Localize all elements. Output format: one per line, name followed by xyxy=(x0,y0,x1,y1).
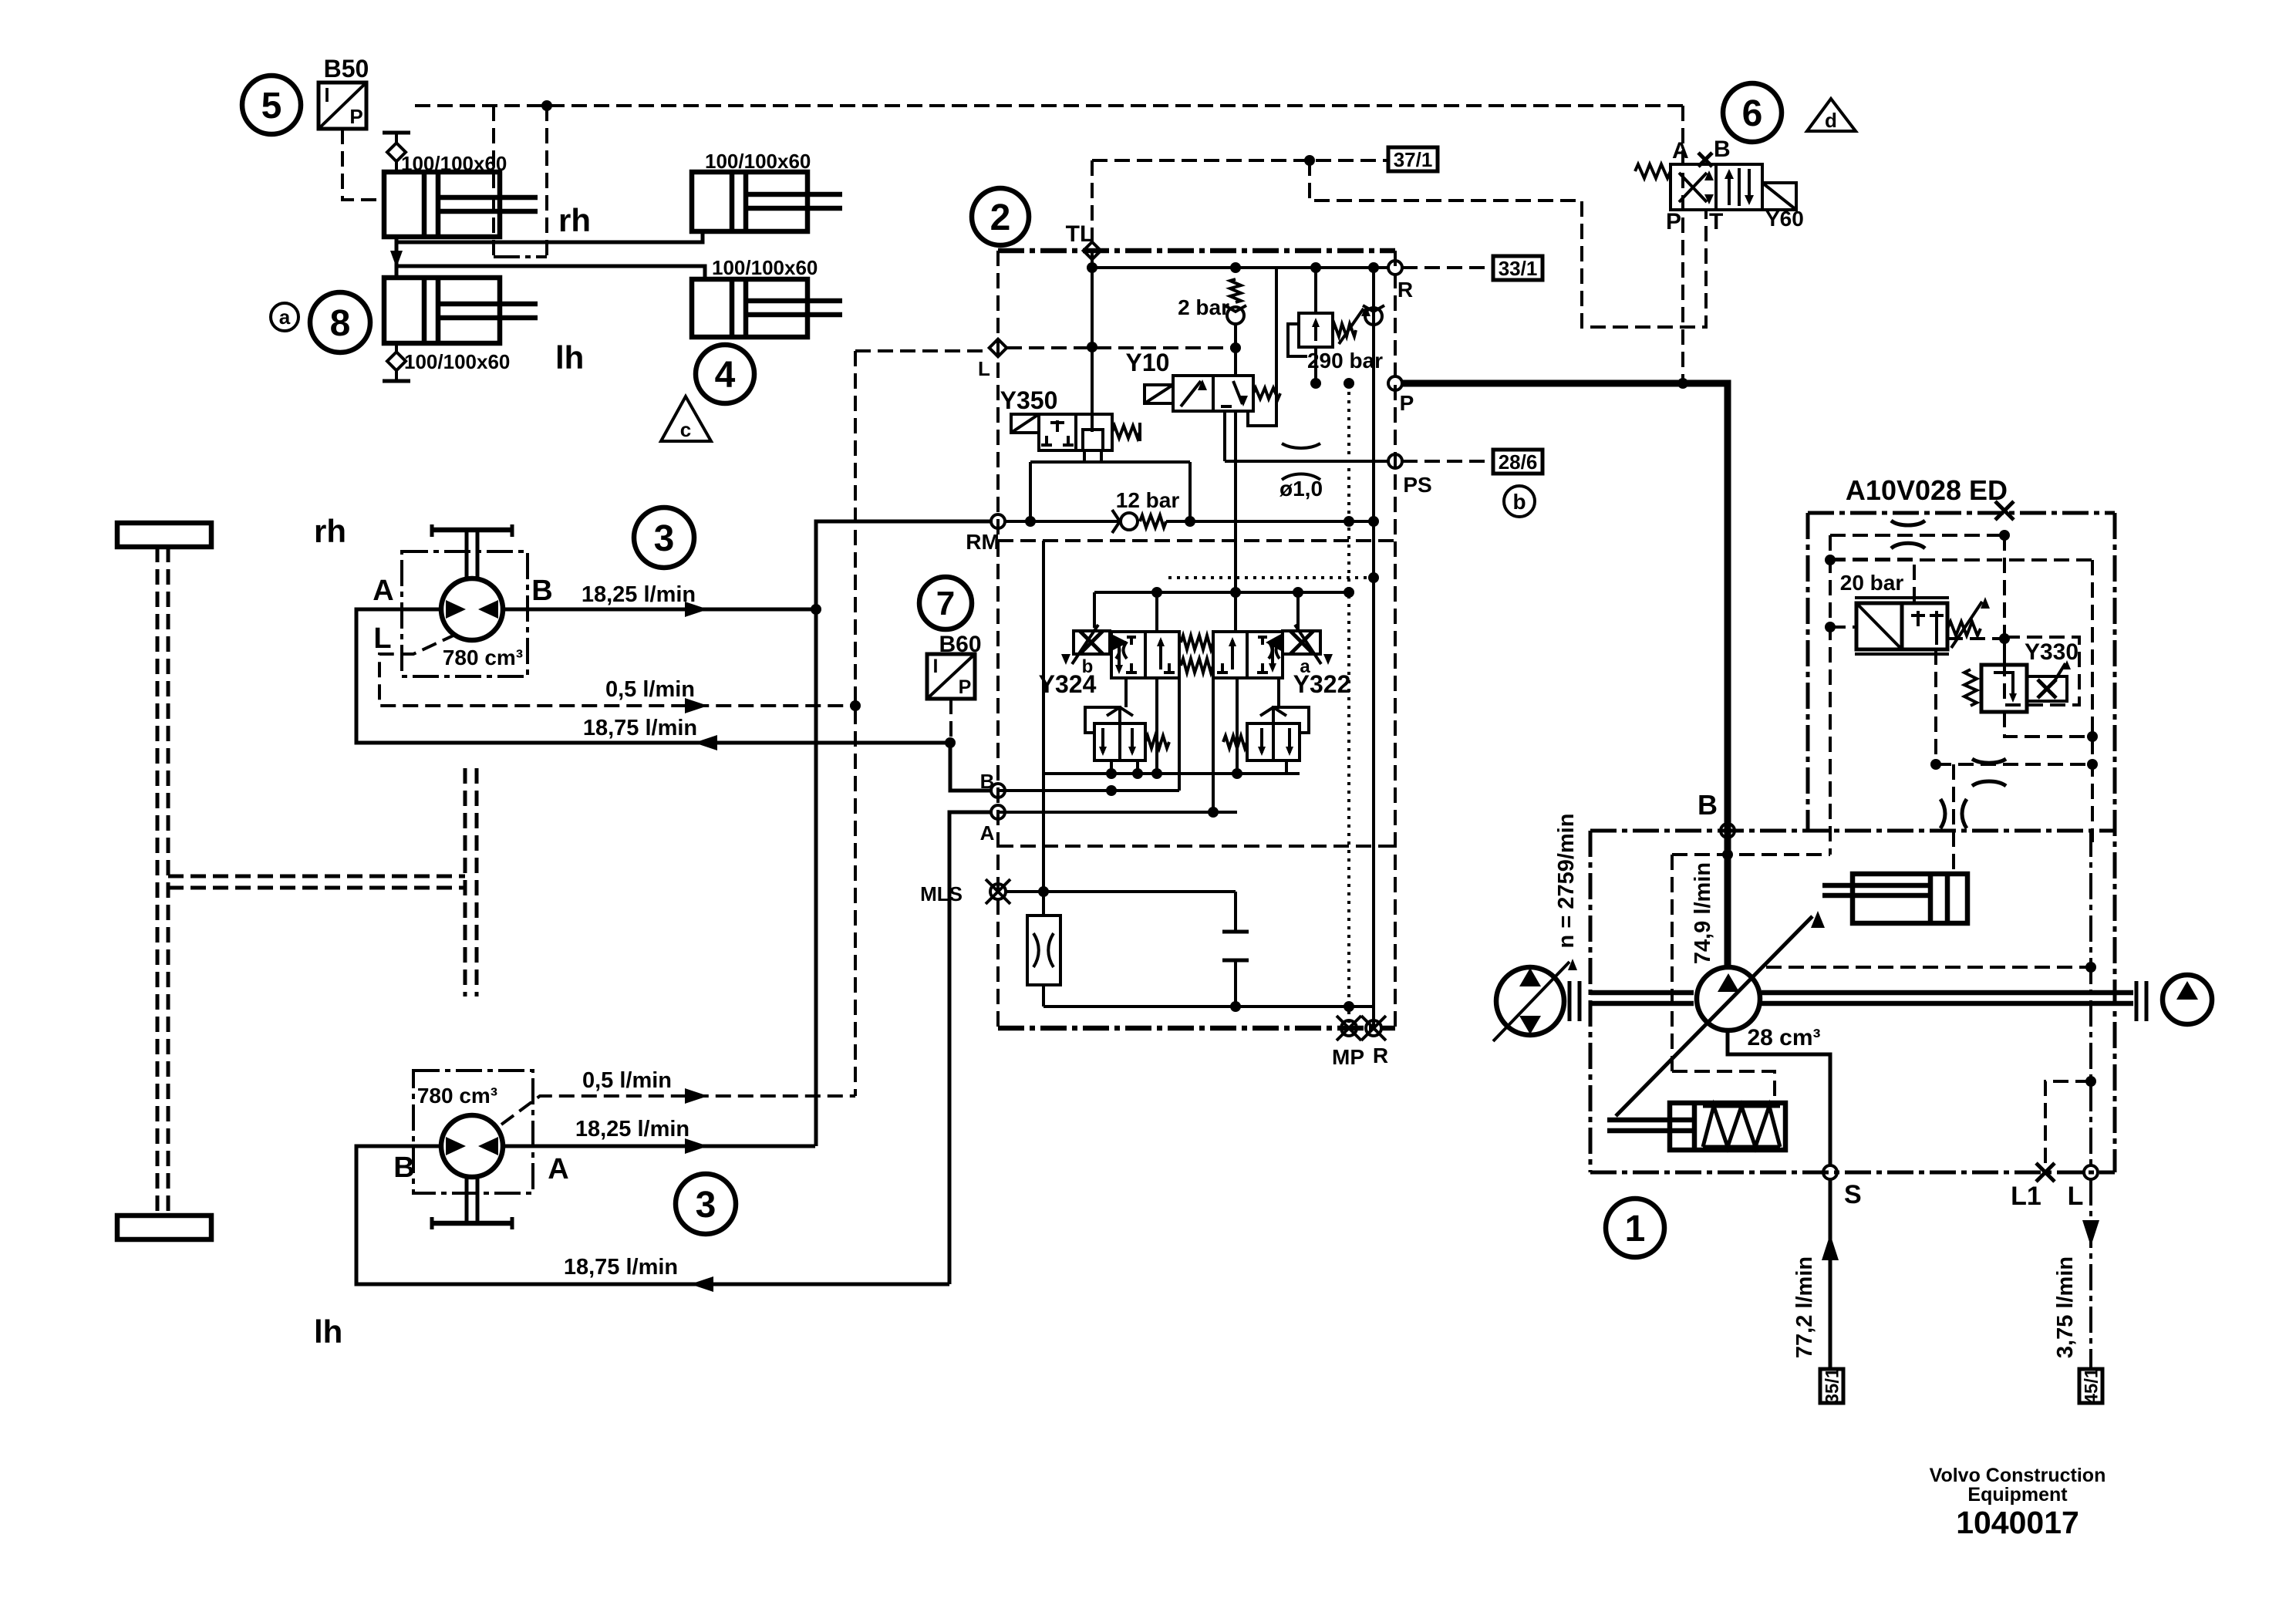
port PS xyxy=(1388,454,1402,468)
svg-text:B: B xyxy=(393,1152,414,1184)
svg-text:0,5 l/min: 0,5 l/min xyxy=(605,677,695,702)
svg-text:3: 3 xyxy=(696,1185,716,1226)
wire case drain dashed xyxy=(1766,966,2091,969)
svg-text:B: B xyxy=(1714,137,1731,162)
svg-text:3: 3 xyxy=(654,518,675,559)
svg-text:7: 7 xyxy=(936,585,955,622)
wire L1 bypass xyxy=(2045,1081,2091,1163)
valve block 2 border xyxy=(998,248,1395,254)
svg-text:T: T xyxy=(1709,209,1723,234)
ref 28/6 xyxy=(1493,450,1542,474)
wire pilot top dashed xyxy=(415,104,1683,107)
wire Y330 outlet xyxy=(2004,712,2092,737)
port P xyxy=(1388,376,1402,390)
wire 37/1 dashed xyxy=(1092,159,1388,162)
wire B dashed inner xyxy=(1672,853,1830,856)
wire lh L drain 0,5 xyxy=(501,1096,855,1125)
svg-text:Volvo Construction: Volvo Construction xyxy=(1930,1465,2106,1486)
port L1 xyxy=(2036,1163,2055,1182)
servo cylinder xyxy=(1853,874,1967,923)
wire L drain line xyxy=(2089,831,2092,1165)
svg-text:S: S xyxy=(1844,1180,1862,1209)
svg-text:2: 2 xyxy=(990,197,1011,238)
wire pump outlet to S xyxy=(1728,1032,1830,1165)
shaft lines xyxy=(1590,990,1694,996)
wire compensator bottom xyxy=(1043,772,1300,775)
svg-text:Y10: Y10 xyxy=(1126,349,1170,376)
svg-text:3,75 l/min: 3,75 l/min xyxy=(2053,1256,2078,1358)
wire Y350 outlet bracket xyxy=(1030,450,1190,521)
pressure compensator left xyxy=(1094,723,1120,760)
svg-text:rh: rh xyxy=(314,513,346,549)
orifice 1,0 xyxy=(1282,443,1320,448)
check valve P to R xyxy=(1365,308,1382,325)
wire P main to pump xyxy=(1402,383,1728,966)
wires compensator linkage xyxy=(1124,678,1128,707)
balloon 3 rh xyxy=(634,508,694,568)
svg-text:33/1: 33/1 xyxy=(1499,257,1538,280)
wire lh A out 18,25 xyxy=(503,1145,815,1148)
svg-text:L: L xyxy=(373,622,391,655)
wire pilot drop left xyxy=(492,106,495,257)
svg-text:74,9 l/min: 74,9 l/min xyxy=(1691,862,1715,964)
svg-text:B50: B50 xyxy=(324,55,369,83)
svg-text:28 cm³: 28 cm³ xyxy=(1747,1025,1820,1050)
wire MLS line xyxy=(1006,890,1236,893)
balloon 5 xyxy=(242,76,301,134)
svg-text:I: I xyxy=(324,83,329,106)
svg-text:0,5 l/min: 0,5 l/min xyxy=(582,1068,672,1093)
svg-text:45/1: 45/1 xyxy=(2081,1368,2102,1404)
springs between valves xyxy=(1181,636,1213,649)
svg-text:5: 5 xyxy=(261,86,282,126)
port B xyxy=(991,784,1005,798)
wire P pilot riser xyxy=(1681,106,1684,383)
balloon 8 xyxy=(310,292,370,352)
wire 28/6 xyxy=(1402,460,1493,463)
svg-text:PS: PS xyxy=(1403,473,1431,497)
port B pump xyxy=(1721,824,1735,838)
svg-text:100/100x60: 100/100x60 xyxy=(401,152,507,175)
svg-text:ø1,0: ø1,0 xyxy=(1279,477,1323,501)
wire B port line xyxy=(950,743,991,791)
svg-text:B: B xyxy=(1698,789,1718,821)
valve Y322 xyxy=(1213,632,1247,678)
main pump xyxy=(1697,967,1760,1030)
wire TL internal drop xyxy=(1091,251,1094,432)
svg-text:18,75 l/min: 18,75 l/min xyxy=(583,716,697,740)
ref 33/1 xyxy=(1493,256,1542,280)
svg-text:A: A xyxy=(980,821,995,845)
boost pump right xyxy=(2163,975,2212,1024)
swashplate arrow xyxy=(1616,916,1812,1116)
cylinder rh right 100/100x60 xyxy=(692,172,842,231)
port MP xyxy=(1341,1020,1357,1036)
breather bottom xyxy=(395,343,398,352)
orifice restrictor xyxy=(1027,916,1060,985)
aux pump left xyxy=(1496,967,1564,1035)
wire B60 drop xyxy=(949,699,952,740)
balloon a xyxy=(271,303,298,331)
block2 inner dashed line 1 xyxy=(998,539,1395,542)
svg-text:d: d xyxy=(1825,109,1837,132)
ref 37/1 xyxy=(1388,147,1438,171)
svg-text:P: P xyxy=(959,676,972,698)
block2 inner dashed line 2 xyxy=(998,845,1395,848)
svg-text:18,75 l/min: 18,75 l/min xyxy=(564,1255,678,1280)
accumulator xyxy=(1234,892,1237,932)
svg-text:1040017: 1040017 xyxy=(1956,1505,2079,1540)
motor lh 780cm3 xyxy=(413,1071,533,1193)
wire inner dashed box xyxy=(1830,558,2092,561)
spring Y60 xyxy=(1635,164,1671,178)
svg-text:100/100x60: 100/100x60 xyxy=(404,350,510,373)
svg-text:77,2 l/min: 77,2 l/min xyxy=(1792,1256,1817,1358)
svg-text:P: P xyxy=(1400,391,1414,415)
svg-text:B: B xyxy=(980,770,995,793)
svg-text:37/1: 37/1 xyxy=(1394,148,1433,171)
svg-text:L1: L1 xyxy=(2011,1182,2041,1211)
cylinder lh right 100/100x60 xyxy=(692,279,842,337)
wire L outlet xyxy=(2089,1179,2092,1369)
breather top xyxy=(395,162,398,172)
wire R riser xyxy=(1372,268,1375,1028)
svg-text:100/100x60: 100/100x60 xyxy=(712,256,818,279)
wire between cylinders xyxy=(395,237,399,278)
wire A internal xyxy=(998,811,1237,814)
wire rh pipe xyxy=(396,231,703,242)
motor rh 780cm3 xyxy=(402,551,528,676)
svg-text:RM: RM xyxy=(966,530,1000,554)
cylinder rh left 100/100x60 xyxy=(384,172,538,237)
ref 35/1 xyxy=(1820,1369,1843,1403)
regulator spring cylinder xyxy=(1670,1103,1785,1150)
svg-text:8: 8 xyxy=(330,303,351,344)
port MLS xyxy=(990,884,1006,899)
wire TL pilot up xyxy=(1091,160,1094,242)
wire RM collector xyxy=(816,521,991,1146)
wire feedback dashed top xyxy=(1830,534,2004,537)
check valve 2 bar xyxy=(1230,279,1241,302)
svg-text:I: I xyxy=(933,656,939,677)
wire Y10 to PS line xyxy=(1223,411,1226,461)
wire lh pipe xyxy=(396,266,705,279)
port R side xyxy=(1388,261,1402,275)
wire Y10 right link xyxy=(1248,268,1276,426)
svg-text:a: a xyxy=(279,305,291,329)
valve Y324 xyxy=(1074,631,1110,654)
svg-text:Y322: Y322 xyxy=(1293,670,1351,698)
svg-text:rh: rh xyxy=(558,202,591,238)
balloon 2 xyxy=(972,188,1029,245)
port S xyxy=(1823,1165,1837,1179)
spring 20bar solenoid xyxy=(1947,622,1981,636)
svg-text:780 cm³: 780 cm³ xyxy=(417,1084,497,1108)
svg-text:18,25 l/min: 18,25 l/min xyxy=(575,1117,689,1141)
pressure compensator right xyxy=(1247,723,1273,760)
wire R supply line xyxy=(1092,266,1388,269)
balloon 6 xyxy=(1723,83,1782,142)
port A xyxy=(991,805,1005,819)
wire L pilot dashed xyxy=(1006,346,1236,349)
svg-text:lh: lh xyxy=(314,1313,342,1350)
svg-text:20 bar: 20 bar xyxy=(1840,571,1904,595)
relief valve 290 bar xyxy=(1299,313,1333,347)
svg-text:28/6: 28/6 xyxy=(1499,450,1538,474)
wire MP riser xyxy=(1347,383,1350,1028)
svg-text:18,25 l/min: 18,25 l/min xyxy=(582,582,696,607)
svg-text:2 bar: 2 bar xyxy=(1178,295,1229,319)
cylinder lh left 100/100x60 xyxy=(384,278,538,343)
svg-text:290 bar: 290 bar xyxy=(1307,349,1383,373)
pump block 1 border xyxy=(1590,829,2115,833)
port L xyxy=(990,339,1007,357)
wire rh L drain 0,5 xyxy=(379,634,855,706)
svg-text:lh: lh xyxy=(555,339,584,376)
wire 20bar pilot taps xyxy=(1830,559,1914,603)
svg-text:A: A xyxy=(1672,138,1689,164)
wire Y60 T-line xyxy=(1310,160,1706,327)
svg-text:L: L xyxy=(978,357,990,380)
wire S suction xyxy=(1829,1179,1832,1369)
port R bottom xyxy=(1366,1020,1381,1036)
svg-text:A: A xyxy=(548,1153,568,1185)
port RM xyxy=(991,514,1005,528)
svg-text:4: 4 xyxy=(715,355,736,396)
ref 45/1 xyxy=(2079,1369,2102,1403)
svg-text:Y324: Y324 xyxy=(1039,670,1097,698)
axle cross horizontal xyxy=(168,875,465,878)
balloon 7 xyxy=(919,577,972,629)
wire tank bottom xyxy=(1043,1005,1374,1008)
svg-text:A10V028 ED: A10V028 ED xyxy=(1846,474,2008,506)
solenoid Y60 xyxy=(1762,183,1796,210)
balloon b xyxy=(1504,486,1535,517)
wire A port line xyxy=(949,812,991,1284)
svg-text:35/1: 35/1 xyxy=(1822,1368,1843,1404)
wire lh B return 18,75 xyxy=(356,1146,949,1284)
wire rh A return xyxy=(356,609,950,743)
shaft coupling right xyxy=(2135,981,2139,1021)
track bottom bar xyxy=(117,1216,211,1239)
valve Y60 4/2 xyxy=(1671,164,1716,210)
svg-text:R: R xyxy=(1397,278,1413,302)
svg-text:6: 6 xyxy=(1742,93,1763,134)
wire B50 to cylinder xyxy=(342,129,383,200)
track top bar xyxy=(117,523,211,547)
svg-text:MP: MP xyxy=(1332,1045,1364,1069)
svg-text:Y60: Y60 xyxy=(1765,207,1804,231)
balloon 4 xyxy=(696,345,754,403)
svg-text:P: P xyxy=(349,105,362,128)
orifice servo xyxy=(1952,764,1955,874)
svg-text:780 cm³: 780 cm³ xyxy=(443,646,523,669)
svg-text:1: 1 xyxy=(1625,1209,1646,1249)
svg-text:L: L xyxy=(2068,1182,2084,1211)
wire L pilot out xyxy=(855,349,990,352)
svg-text:Y350: Y350 xyxy=(1000,386,1058,414)
svg-text:n = 2759/min: n = 2759/min xyxy=(1554,814,1579,949)
wire rh B out 18,25 xyxy=(503,608,816,612)
wire 33/1 xyxy=(1402,266,1493,269)
svg-text:b: b xyxy=(1512,490,1526,514)
balloon 3 lh xyxy=(676,1174,736,1234)
wire drain collector dashed xyxy=(854,351,857,1096)
port L xyxy=(2084,1165,2098,1179)
svg-text:Y330: Y330 xyxy=(2025,639,2079,665)
svg-text:R: R xyxy=(1373,1044,1388,1067)
wire regulator pilot xyxy=(1672,1071,1775,1103)
triangle d xyxy=(1807,99,1856,131)
svg-text:P: P xyxy=(1666,209,1681,234)
wire servo supply xyxy=(1934,649,1937,764)
svg-text:Equipment: Equipment xyxy=(1967,1484,2068,1506)
wire B internal xyxy=(998,789,1179,792)
svg-text:A: A xyxy=(373,575,393,607)
balloon 1 xyxy=(1606,1199,1664,1257)
svg-text:100/100x60: 100/100x60 xyxy=(705,150,811,173)
svg-text:B: B xyxy=(531,575,552,607)
triangle c xyxy=(661,396,711,441)
wire 20bar to Y330 xyxy=(1947,637,2004,640)
wire valve supply top xyxy=(1094,591,1349,594)
axle cross vertical xyxy=(464,768,467,996)
track shaft vertical xyxy=(156,547,160,1216)
svg-text:MLS: MLS xyxy=(920,882,963,905)
svg-text:c: c xyxy=(680,418,691,441)
svg-text:12 bar: 12 bar xyxy=(1116,488,1180,512)
